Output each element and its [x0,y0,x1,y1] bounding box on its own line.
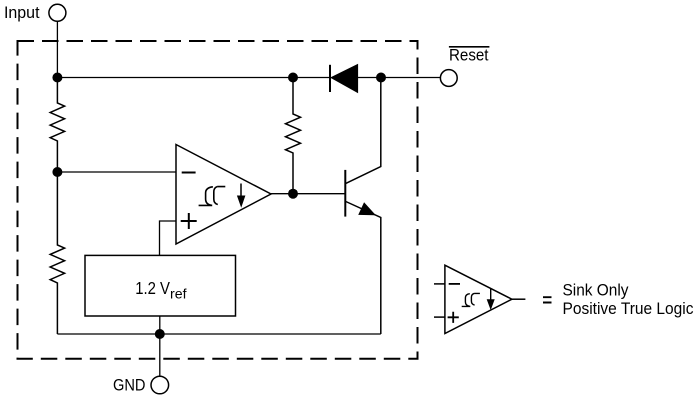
svg-text:Reset: Reset [449,47,489,65]
legend plus input stub [434,316,445,318]
legend minus input stub [434,283,445,285]
GND terminal circle [151,376,169,394]
Q1 emitter [346,202,381,335]
Q1 base bar [344,170,346,217]
wire: Input to top rail [56,21,58,77]
node: divider tap junction [52,167,62,177]
resistor R1 (upper left) [50,78,64,173]
op-amp U1 (comparator) [176,145,271,245]
legend hysteresis symbol [462,293,480,306]
wire: tap to comparator inverting input [57,171,176,173]
wire: top rail [57,77,330,79]
node: ground junction [155,329,165,339]
resistor R3 (pull-up, middle) [286,78,301,194]
wire: bottom rail [57,333,380,335]
resistor R2 (lower left) [50,172,64,334]
wire: comparator output to transistor base [271,193,345,195]
legend arrow [490,289,492,302]
Q1 emitter arrow [359,203,375,215]
legend output stub [512,298,526,300]
equals sign [543,297,552,302]
wire: Vref output to comparator non-inverting input [160,221,177,255]
node: top-rail / R3 junction [288,73,298,83]
wire: diode to Reset terminal [358,77,441,79]
wire: Vref box bottom to ground rail [159,316,161,334]
legend plus sign [448,312,459,323]
legend minus sign [449,283,460,285]
svg-text:GND: GND [113,375,146,394]
svg-text:Positive True Logic: Positive True Logic [563,299,694,318]
svg-text:Sink Only: Sink Only [563,280,629,299]
plus sign (U1 non-inverting input) [181,213,197,229]
minus sign (U1 inverting input) [182,172,196,174]
wire: ground rail to GND terminal [159,334,161,376]
hysteresis symbol (U1) [199,187,226,206]
IC boundary (dashed) [18,41,418,359]
legend op-amp symbol [434,265,525,333]
svg-text:Input: Input [4,3,40,22]
svg-text:ref: ref [170,286,187,301]
diode D1 (clamp, anode right) [329,65,331,92]
transistor Q1 (open-collector NPN) [345,78,381,335]
1.2V reference box [85,255,236,316]
node: output/resistor junction [288,189,298,199]
node: collector / reset junction [376,73,386,83]
Reset terminal circle [440,70,457,87]
svg-text:1.2 V: 1.2 V [135,278,170,298]
arrow (U1 output active-low indicator) [240,184,242,199]
node: input/top-rail junction [52,73,62,83]
Q1 collector [346,78,381,184]
Input terminal circle [49,4,66,21]
